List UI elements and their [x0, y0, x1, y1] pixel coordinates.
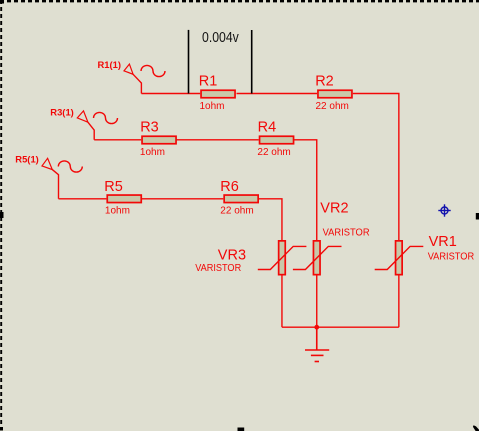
svg-text:VR1: VR1	[429, 234, 457, 250]
varistor VR1	[375, 241, 424, 275]
terminal R5(1) arrow	[42, 158, 59, 199]
wire VR2 to ground bus	[316, 276, 318, 328]
resistor R1	[201, 90, 235, 98]
svg-text:R2: R2	[315, 74, 334, 90]
svg-text:22 ohm: 22 ohm	[257, 147, 290, 158]
origin marker	[438, 204, 450, 216]
svg-text:22 ohm: 22 ohm	[316, 101, 349, 112]
generator R1(1) sine symbol	[141, 65, 165, 76]
wire row1 terminal to R1	[141, 93, 200, 95]
varistor VR2	[293, 241, 342, 275]
svg-text:1ohm: 1ohm	[140, 147, 165, 158]
wire R6 to VR3	[259, 199, 282, 241]
wire R2 to VR1	[353, 94, 399, 242]
ground bus wire	[282, 326, 399, 328]
wire R4 to VR2	[293, 140, 317, 241]
svg-text:VARISTOR: VARISTOR	[195, 263, 241, 274]
resistor R6	[224, 195, 258, 203]
svg-text:R5: R5	[104, 179, 123, 195]
svg-text:R1(1): R1(1)	[98, 60, 122, 70]
wire R1 to R2	[237, 93, 318, 95]
resistor R2	[318, 90, 352, 98]
svg-text:R6: R6	[220, 179, 239, 195]
terminal R3(1) arrow	[77, 111, 94, 140]
svg-text:0.004v: 0.004v	[202, 30, 239, 46]
svg-text:1ohm: 1ohm	[105, 206, 130, 217]
voltage probe line left	[188, 30, 190, 94]
svg-text:R5(1): R5(1)	[15, 154, 39, 164]
wire row3 terminal to R5	[59, 198, 107, 200]
svg-text:1ohm: 1ohm	[200, 101, 225, 112]
generator R3(1) sine symbol	[94, 112, 118, 123]
resistor R3	[142, 136, 176, 144]
ground symbol	[305, 327, 329, 361]
svg-text:R3: R3	[140, 120, 159, 136]
terminal R1(1) arrow	[124, 64, 141, 93]
wire R5 to R6	[142, 198, 224, 200]
varistor VR3	[258, 241, 307, 275]
wire row2 terminal to R3	[94, 139, 141, 141]
wire VR1 to ground bus	[398, 276, 400, 328]
generator R5(1) sine symbol	[58, 161, 82, 172]
svg-text:VR2: VR2	[320, 200, 348, 216]
svg-text:VARISTOR: VARISTOR	[323, 228, 370, 239]
svg-text:22 ohm: 22 ohm	[220, 206, 253, 217]
svg-text:R4: R4	[258, 120, 277, 136]
svg-text:R3(1): R3(1)	[50, 108, 74, 118]
resistor R4	[260, 136, 294, 144]
svg-text:R1: R1	[199, 74, 218, 90]
resistor R5	[107, 195, 141, 203]
svg-text:VARISTOR: VARISTOR	[428, 251, 475, 262]
wire VR3 to ground bus	[281, 276, 283, 328]
mouse cursor fragment	[473, 425, 479, 431]
wire R3 to R4	[176, 139, 258, 141]
voltage probe line right	[251, 30, 253, 94]
junction dot	[314, 325, 319, 330]
svg-text:VR3: VR3	[218, 248, 246, 264]
